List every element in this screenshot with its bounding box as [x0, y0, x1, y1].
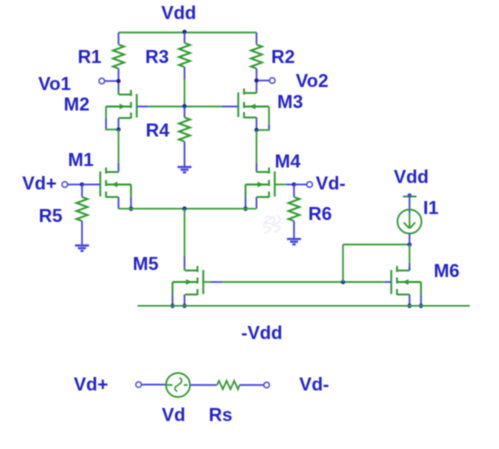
node tail-M5 junction [182, 207, 186, 211]
svg-text:R2: R2 [271, 46, 295, 67]
wire -Vdd rail [138, 305, 470, 307]
node M3 source-bulk junction [254, 128, 258, 132]
svg-text:Vdd: Vdd [161, 2, 196, 23]
svg-text:Vd+: Vd+ [22, 173, 57, 194]
wire M3 source node to M4 drain [256, 130, 258, 172]
node M2 source-bulk junction [116, 127, 120, 131]
wire M2 source node to M1 drain [118, 130, 120, 173]
svg-text:Vo1: Vo1 [38, 73, 71, 94]
Vdd net label (top) [161, 2, 196, 23]
voltage source Vd [162, 373, 190, 425]
svg-text:R6: R6 [308, 203, 332, 224]
wire M6 source down [409, 295, 411, 306]
svg-text:Vd-: Vd- [316, 172, 346, 193]
svg-text:I1: I1 [423, 197, 438, 218]
svg-text:M4: M4 [275, 150, 301, 171]
ground below R4 [178, 167, 192, 172]
wire Vdd top rail [119, 32, 257, 34]
wire diode connect vertical [342, 245, 344, 283]
terminal Vd+ [22, 173, 82, 194]
wire M3 source down [256, 118, 258, 131]
node M6 source junction [407, 304, 411, 308]
svg-text:Rs: Rs [209, 404, 233, 425]
svg-text:-Vdd: -Vdd [241, 322, 282, 343]
node Vd+ junction [80, 182, 84, 186]
wire R1 bottom to M2 drain [118, 81, 120, 91]
wire M4 gate to Vd- node [275, 184, 294, 186]
wire I1 bottom [409, 234, 411, 245]
svg-text:R1: R1 [78, 46, 102, 67]
ground below R5 [75, 246, 89, 251]
wire gate row M2-M3 [137, 106, 239, 108]
node Vo1 junction [116, 79, 120, 83]
wire R2 bottom to M3 drain [256, 81, 258, 92]
wire tail node [119, 208, 257, 210]
resistor R6 [289, 185, 332, 240]
wire M2 source down [118, 118, 120, 130]
svg-text:R5: R5 [39, 205, 63, 226]
node Vo2 junction [254, 78, 258, 82]
wire I1 to M6 drain [409, 245, 411, 271]
decorative watermark [263, 215, 280, 233]
node gate row center junction [182, 104, 186, 108]
transistor M3 [238, 89, 303, 119]
wire Vd+ to Vd source [142, 384, 167, 386]
node M1 bulk junction [129, 207, 133, 211]
node Vdd rail junction [182, 30, 186, 34]
transistor M2 [64, 90, 137, 119]
wire gate row M5-M6 [203, 281, 391, 283]
node M6 bulk junction [419, 304, 423, 308]
svg-text:Vd: Vd [162, 404, 186, 425]
terminal Vo1 [38, 73, 118, 94]
svg-text:Vdd: Vdd [394, 166, 429, 187]
-Vdd net label [241, 322, 282, 343]
power symbol Vdd (right) [394, 166, 429, 197]
transistor M4 [246, 150, 302, 208]
svg-text:M2: M2 [64, 94, 90, 115]
svg-text:M1: M1 [68, 149, 94, 170]
terminal Vd- (source side) [264, 374, 329, 395]
svg-text:M3: M3 [277, 91, 303, 112]
transistor M1 [68, 149, 131, 209]
transistor M6 [391, 260, 459, 306]
wire tail to M5 drain [184, 209, 186, 268]
svg-text:Vo2: Vo2 [296, 70, 329, 91]
wire M3 bulk to source node [257, 107, 270, 131]
svg-text:Vd+: Vd+ [74, 374, 109, 395]
wire M4 source down [256, 197, 258, 209]
wire Rs to Vd- terminal [240, 384, 264, 386]
resistor R4 [146, 107, 190, 168]
wire M1 source down [118, 197, 120, 209]
wire Vd source to Rs [190, 384, 217, 386]
resistor R3 [145, 33, 190, 81]
current source I1 [398, 197, 439, 234]
node Vd- junction [292, 182, 296, 186]
wire diode connect horizontal [343, 244, 410, 246]
terminal Vd+ (source side) [74, 374, 142, 395]
wire Vdd to I1 [409, 197, 411, 214]
node I1-M6 drain junction [407, 242, 411, 246]
svg-text:Vd-: Vd- [299, 374, 329, 395]
svg-text:R4: R4 [146, 120, 170, 141]
resistor R2 [251, 33, 295, 81]
terminal Vd- [294, 172, 346, 193]
wire M5 source down [184, 295, 186, 306]
ground below R6 [287, 239, 301, 244]
node M4 bulk junction [243, 207, 247, 211]
terminal Vo2 [257, 70, 329, 91]
node gate-diode junction [341, 280, 345, 284]
resistor Rs [209, 381, 240, 425]
node M5 source junction [182, 304, 186, 308]
wire M2 bulk to source node [105, 107, 118, 130]
transistor M5 [133, 253, 203, 306]
resistor R5 [39, 185, 88, 246]
resistor R1 [78, 33, 124, 82]
wire R3 bottom to gate node [184, 79, 186, 107]
svg-text:M5: M5 [133, 253, 159, 274]
node M5 bulk junction [170, 304, 174, 308]
svg-text:R3: R3 [145, 46, 169, 67]
wire Vd+ to M1 gate [82, 184, 100, 186]
svg-text:M6: M6 [434, 260, 460, 281]
